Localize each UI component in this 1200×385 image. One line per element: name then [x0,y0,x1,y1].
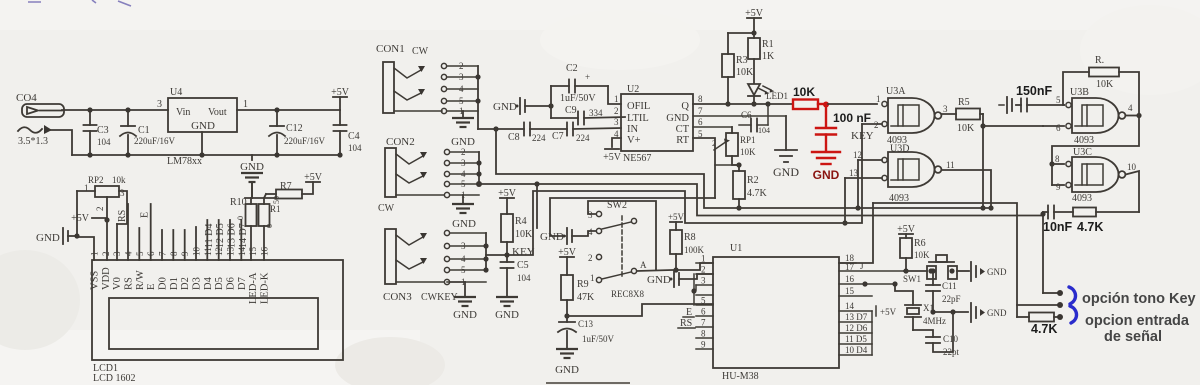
resistor R2 [733,165,768,211]
svg-text:C4: C4 [348,131,360,142]
wire LCD pin 6 [150,204,152,260]
ground GND below CON2 [452,195,476,230]
svg-text:1: 1 [90,252,100,257]
wire U1 pin ladder vertical [693,274,695,305]
svg-text:LTIL: LTIL [627,113,649,124]
CON3 contact circles and pins [444,230,486,287]
svg-text:CT: CT [676,124,690,135]
svg-text:2: 2 [459,61,464,71]
svg-text:104: 104 [517,273,531,283]
connector CON3 audio jack [383,229,458,303]
capacitor C8 [478,123,546,144]
svg-text:2: 2 [588,253,593,263]
capacitor C11 [926,268,961,312]
svg-text:V+: V+ [627,135,641,146]
op-gate U3D 4093 [849,144,955,205]
capacitor C7 [530,123,621,144]
wire U4 GND to rail [201,132,203,155]
svg-text:C9: C9 [565,105,577,116]
svg-text:GND: GND [495,309,519,321]
scan edge artifact [546,382,630,384]
brace opcion tono [1069,287,1076,304]
svg-text:8: 8 [698,94,703,104]
scan artifact marks [28,0,131,6]
svg-text:2: 2 [614,106,619,116]
svg-text:GND: GND [987,308,1007,318]
svg-text:de señal: de señal [1104,329,1162,345]
capacitor C6 [739,104,770,135]
wire CON2 bus [478,152,480,184]
wire top rail [62,109,168,111]
resistor 10K red [793,100,818,110]
svg-text:10: 10 [192,247,202,257]
svg-text:U4: U4 [170,87,182,98]
wire LCD pin 5 [138,228,140,260]
svg-text:C2: C2 [566,63,578,74]
svg-text:14 D7: 14 D7 [238,223,249,248]
svg-text:100 nF: 100 nF [833,111,871,125]
svg-text:10K: 10K [736,67,754,78]
wire CON3 to KEY [486,254,507,256]
+5V supply rail top right [331,87,350,110]
svg-text:10 D4: 10 D4 [845,345,868,355]
svg-text:C11: C11 [942,281,957,291]
svg-text:R9: R9 [577,279,589,290]
wire V0 pin [116,224,118,260]
op-gate U3A 4093 [874,86,948,146]
resistor 4.7K bottom [1017,316,1029,318]
svg-text:11 D4: 11 D4 [204,224,215,248]
capacitor C3 [84,107,112,157]
svg-text:3: 3 [701,276,706,286]
svg-text:220uF/16V: 220uF/16V [134,136,176,146]
svg-text:11 D5: 11 D5 [845,334,867,344]
svg-text:RP1: RP1 [740,135,756,145]
svg-text:1K: 1K [762,51,775,62]
U1 right pin 17 J [839,270,904,272]
resistor 4.7K top [1073,208,1096,217]
capacitor C12 [269,107,326,157]
U3D input pin circles [882,157,887,162]
svg-text:GND: GND [773,165,799,179]
svg-text:1: 1 [590,273,595,283]
ground GND above R10 R11 [0,0,1,1]
svg-text:4093: 4093 [1074,135,1094,146]
+5V at pin14 [875,306,877,316]
svg-text:R.: R. [1095,55,1104,66]
svg-text:15: 15 [845,286,855,296]
svg-text:5: 5 [461,265,466,275]
svg-text:14: 14 [845,301,855,311]
U1 left pin 7 [696,326,713,328]
resistor R3 [722,33,754,107]
svg-text:2: 2 [874,120,879,130]
ground GND at U1 pin2 [647,271,713,287]
svg-text:13 D7: 13 D7 [845,312,868,322]
wire U3D pin13 [845,177,882,179]
svg-text:GND: GND [813,168,840,182]
wire U2 RT pin to lower bus [693,138,715,198]
op-gate U3B 4093 [1056,87,1133,146]
svg-text:104: 104 [348,143,362,153]
svg-text:SW1: SW1 [903,274,921,284]
svg-text:RT: RT [676,135,689,146]
resistor R11 [259,196,282,260]
wire U3A pin2 KEY [862,123,882,125]
svg-text:C5: C5 [517,260,529,271]
ground GND left of LCD [36,228,77,244]
+5V for LCD VDD [71,213,110,224]
svg-text:U3A: U3A [886,86,906,97]
svg-text:R3: R3 [736,55,748,66]
wire LCD pin 12 [218,220,220,260]
wire LCD pin 4 [127,204,129,260]
U3B input pin circles [1066,102,1071,107]
capacitor C13 [558,316,615,348]
switch SW2 [588,200,656,283]
svg-text:15: 15 [248,247,258,257]
svg-text:GND: GND [452,218,476,230]
svg-text:4MHz: 4MHz [923,316,946,326]
svg-text:D0: D0 [158,277,169,290]
svg-text:HU-M38: HU-M38 [722,371,759,382]
svg-text:D7: D7 [237,277,248,290]
resistor R9 [561,275,595,319]
wire R5 output vertical [982,114,984,208]
svg-text:8: 8 [701,329,706,339]
svg-text:4: 4 [459,84,464,94]
switch SW1 [903,255,969,284]
svg-text:5: 5 [459,96,464,106]
svg-text:1uF/50V: 1uF/50V [560,93,596,104]
svg-text:CON2: CON2 [386,136,415,148]
capacitor C4 [334,110,363,158]
svg-text:E: E [146,284,157,290]
svg-text:9: 9 [701,340,706,350]
svg-text:3: 3 [614,117,619,127]
svg-text:12 D5: 12 D5 [215,223,226,248]
wire RP2 pin1 to VSS [77,191,94,260]
svg-text:7: 7 [698,106,703,116]
svg-text:GND: GND [493,101,517,113]
+5V at R8 [668,212,685,230]
svg-text:U1: U1 [730,243,742,254]
svg-text:6: 6 [146,251,156,256]
wire to opcion dot2 [1017,304,1057,306]
svg-text:C1: C1 [138,125,150,136]
svg-text:22pt: 22pt [943,347,960,357]
svg-text:NE567: NE567 [623,153,651,164]
svg-text:LED-K: LED-K [260,272,271,304]
svg-text:VDD: VDD [101,267,112,290]
svg-text:D1: D1 [169,277,180,290]
svg-text:+5V: +5V [603,152,622,163]
svg-text:5: 5 [1056,95,1061,105]
svg-text:A: A [640,260,647,270]
U1 right pin 13 D7 [839,321,872,323]
svg-text:12: 12 [853,150,862,160]
wire U3C pins 8 9 [1052,163,1064,165]
svg-text:47K: 47K [577,292,595,303]
svg-text:CW: CW [412,46,429,57]
svg-text:5: 5 [461,179,466,189]
svg-text:CON3: CON3 [383,291,412,303]
svg-text:R1: R1 [762,39,774,50]
U3A input pin circles [882,101,887,106]
svg-text:2: 2 [461,147,466,157]
wire LCD pin 13 [229,220,231,260]
svg-text:16: 16 [845,274,855,284]
wire LCD pin 7 [161,230,163,260]
wire bus1 from C8 node [496,129,991,208]
svg-text:6: 6 [1056,123,1061,133]
svg-text:GND: GND [191,120,215,132]
wire LCD pin 9 [184,230,186,260]
svg-text:GND: GND [987,267,1007,277]
ground GND below CON1 [451,111,475,148]
svg-text:5: 5 [135,251,145,256]
connector CON2 audio jack [378,136,444,214]
CON2 contact circles and pins [444,147,479,200]
svg-text:3: 3 [943,104,948,114]
U1 right pin 10 D4 [839,354,872,356]
svg-text:13: 13 [849,168,859,178]
wire VDD pin [106,220,108,260]
svg-text:E: E [140,212,151,218]
ground GND at SW2 [540,228,596,244]
svg-text:4: 4 [461,169,466,179]
crystal X1 [892,281,946,330]
ground GND below CON3 [447,282,477,321]
wire to U3B pin6 [983,125,1043,127]
svg-text:8: 8 [1055,154,1060,164]
wire bus2 from CON2 [479,184,1043,216]
svg-text:4: 4 [124,251,134,256]
svg-text:RP2: RP2 [88,175,104,185]
connector CO4 (DC jack 3.5*1.3) [16,92,72,155]
resistor R6 [900,238,930,274]
connector CON1 audio jack [376,43,442,113]
wire R10 R11 top rail [245,197,276,199]
U1 right pin 16 [839,283,895,285]
LED1 [748,84,788,107]
potentiometer RP1 [693,127,756,168]
resistor R4 [501,214,533,262]
svg-text:R6: R6 [914,238,926,249]
svg-text:LED1: LED1 [766,91,788,101]
capacitor 10nF [1043,211,1048,213]
wire U3C output [1126,171,1140,212]
wire C13 to U1 pin5 [567,304,713,316]
U1 left pin 6 [696,315,713,317]
svg-text:10K: 10K [957,123,975,134]
svg-text:Vout: Vout [208,107,227,118]
wire U3D pin12 [858,159,882,161]
wire C2 left vertical [550,86,552,118]
svg-text:+: + [585,72,590,82]
resistor R7 [264,181,313,199]
svg-text:10K: 10K [914,250,930,260]
wire U3B out to U3C inputs [1052,116,1139,165]
wire bus5 stub [536,184,538,228]
ground coupling at 150nF [999,97,1021,113]
wire red node to U3A pin1 [826,103,877,105]
svg-text:D5: D5 [214,277,225,290]
svg-text:3: 3 [461,241,466,251]
ground GND below U4 [240,155,264,198]
+5V at R7 [304,172,323,183]
svg-text:10K: 10K [515,229,533,240]
svg-text:R4: R4 [515,216,527,227]
svg-text:17: 17 [845,262,855,272]
IC U2 NE567 [614,84,703,164]
svg-text:1: 1 [701,254,706,264]
U1 left pin 9 [696,348,713,350]
svg-text:1: 1 [614,94,619,104]
resistor R1 [748,33,775,83]
svg-text:6: 6 [698,117,703,127]
U1 left pin 2 [696,273,713,275]
svg-text:GND: GND [555,364,579,376]
svg-text:104: 104 [758,126,770,135]
svg-text:4093: 4093 [1072,193,1092,204]
wire R1 R3 top [728,32,754,34]
svg-text:R1: R1 [270,204,281,214]
svg-text:4: 4 [461,254,466,264]
wire bus opcion row [873,203,1017,317]
capacitor C2 [551,63,608,104]
svg-text:J: J [860,261,864,271]
svg-text:5: 5 [701,296,706,306]
svg-text:C10: C10 [943,334,959,344]
ground GND at C10 [971,303,1007,322]
wire LCD pin 10 [195,227,197,260]
brace opcion entrada [1070,306,1077,323]
svg-text:X1: X1 [923,303,934,313]
svg-text:D4: D4 [203,276,214,290]
capacitor 100nF red [825,104,827,127]
svg-text:LM78xx: LM78xx [167,156,202,167]
IC U1 HU-M38 [713,243,839,382]
svg-text:IN: IN [627,124,638,135]
svg-text:6: 6 [701,307,706,317]
svg-text:150nF: 150nF [1016,84,1052,98]
svg-text:U3B: U3B [1070,87,1089,98]
svg-text:10: 10 [1127,162,1137,172]
resistor R8 [670,230,705,273]
capacitor 150nF [1020,99,1022,112]
+5V top center [745,8,764,33]
svg-text:10K: 10K [740,147,756,157]
svg-text:1uF/50V: 1uF/50V [582,334,615,344]
ground GND below C5 [495,297,519,321]
U1 right pin 12 D6 [839,332,872,334]
svg-text:1: 1 [243,99,248,110]
svg-text:220uF/16V: 220uF/16V [284,136,326,146]
svg-text:12 D6: 12 D6 [845,323,868,333]
CON1 contact circles and pins [441,61,478,116]
wire U3D output [942,170,992,208]
svg-text:224: 224 [576,133,590,143]
svg-text:9: 9 [1056,182,1061,192]
svg-text:+5V: +5V [668,212,685,222]
wire LCD pin 14 [240,220,242,260]
wire U1 pin3 stub [695,285,697,290]
svg-text:GND: GND [453,309,477,321]
svg-text:334: 334 [589,108,603,118]
svg-text:C12: C12 [286,123,303,134]
svg-text:GND: GND [240,161,264,173]
U3C input pin circles [1066,161,1071,166]
svg-text:3: 3 [157,99,162,110]
svg-text:R2: R2 [747,175,759,186]
wire CON3 bus [485,233,487,270]
svg-text:CWKEY: CWKEY [421,292,458,303]
resistor R feedback 10K [1063,55,1139,116]
svg-text:7: 7 [158,251,168,256]
svg-text:9: 9 [180,251,190,256]
svg-text:10K: 10K [793,85,815,99]
wire CON1 bus [477,66,479,129]
svg-text:2: 2 [701,265,706,275]
wire LCD pin 8 [172,230,174,260]
ground GND red [812,152,840,182]
svg-text:D6: D6 [226,277,237,290]
svg-text:+5V: +5V [880,307,897,317]
svg-text:GND: GND [36,232,60,244]
svg-text:R/W: R/W [135,270,146,290]
wire C2 right to pin1 [608,86,621,104]
svg-text:4.7K: 4.7K [1031,322,1057,336]
svg-text:7: 7 [701,318,706,328]
svg-text:OFIL: OFIL [627,101,650,112]
LCD screen inner rect [109,298,318,349]
svg-text:CON1: CON1 [376,43,405,55]
svg-text:22pF: 22pF [942,294,961,304]
U1 left pin 8 [696,337,713,339]
svg-text:0: 0 [265,224,274,228]
resistor R5 [942,97,984,134]
svg-text:3.5*1.3: 3.5*1.3 [18,136,48,147]
wire C11 to GND2 row [933,311,968,313]
svg-text:8: 8 [169,251,179,256]
svg-text:C13: C13 [578,319,594,329]
svg-text:R5: R5 [958,97,970,108]
wire bottom rail [72,154,340,156]
svg-text:Q: Q [681,101,689,112]
svg-text:D2: D2 [180,277,191,290]
svg-text:KEY: KEY [512,246,535,258]
U1 left pin 4 [696,294,713,296]
svg-text:1: 1 [876,94,881,104]
svg-text:RS: RS [124,277,135,290]
ground GND black near U2 [693,116,799,179]
ground GND below C13 [555,349,579,376]
+5V at R4 [498,188,517,214]
ground GND coupling at C8 [493,98,554,114]
svg-text:11: 11 [946,160,955,170]
+5V at U2 pin4 [603,138,622,163]
potentiometer RP2 10k [77,175,127,224]
wire U1 pin18 riser [839,203,873,263]
U1 right pin 18 [839,262,856,264]
svg-text:RS: RS [117,210,128,222]
svg-text:3: 3 [112,251,122,256]
op-gate U3C 4093 [1055,147,1137,204]
svg-text:10k: 10k [112,175,126,185]
svg-text:Vin: Vin [176,107,190,118]
svg-text:GND: GND [540,231,564,243]
